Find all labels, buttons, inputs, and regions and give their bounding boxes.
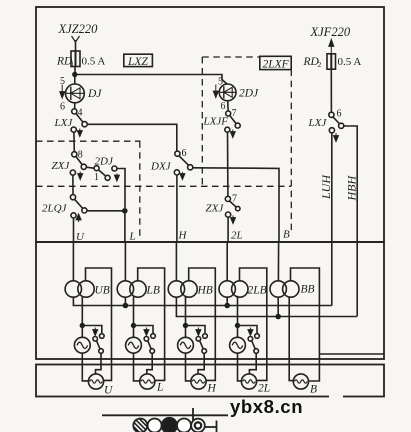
svg-text:LXJ: LXJ bbox=[308, 117, 328, 129]
junction LB primary on LUH bus bbox=[123, 303, 129, 309]
svg-text:LB: LB bbox=[146, 285, 160, 297]
svg-text:HB: HB bbox=[197, 285, 213, 297]
wire node L1 to contact DJ-L bbox=[134, 326, 154, 334]
relay 2DJ (lamp relay with diode) bbox=[213, 77, 259, 113]
svg-text:LUH: LUH bbox=[319, 174, 333, 200]
fuse RD2 0.5 A bbox=[303, 54, 362, 69]
wire node H1 to contact DJ-H bbox=[186, 326, 206, 334]
svg-text:L: L bbox=[156, 382, 163, 394]
svg-text:B: B bbox=[310, 384, 317, 396]
wire AC source to lamp U common bbox=[82, 353, 88, 381]
svg-text:2LQJ: 2LQJ bbox=[42, 203, 68, 215]
wire AC source to lamp H common bbox=[186, 353, 191, 381]
signal head lamp 1 (hatched) bbox=[133, 419, 147, 432]
svg-text:2DJ: 2DJ bbox=[239, 88, 259, 100]
svg-text:BB: BB bbox=[301, 284, 315, 296]
fuse RD1 0.5 A bbox=[56, 51, 105, 69]
wire node 2L1 to contact DJ-2L bbox=[238, 326, 258, 334]
wire node U1 to contact DJ-U bbox=[82, 326, 102, 334]
junction BB primary on HBH line bbox=[275, 314, 281, 320]
junction node H1 bbox=[183, 323, 188, 328]
wire 2LB primary return bbox=[226, 297, 228, 305]
svg-text:LXZ: LXZ bbox=[127, 56, 148, 68]
wire UB secondary to node U1 bbox=[81, 296, 83, 326]
wire net HBH bbox=[344, 126, 357, 317]
svg-text:XJF220: XJF220 bbox=[310, 25, 351, 39]
wire node H1 to AC source bbox=[185, 326, 187, 338]
wire RD2 to contact LXJ right bbox=[330, 69, 332, 112]
wire ZXJ front to contact 2DJ bbox=[86, 167, 94, 168]
contact DJ check L bbox=[151, 334, 156, 339]
wire node L1 to AC source bbox=[133, 326, 135, 338]
wire HB secondary loop to lamp H main bbox=[189, 268, 216, 380]
svg-text:1: 1 bbox=[71, 60, 75, 69]
contact DJ check 2L bbox=[255, 334, 260, 339]
label box LXZ bbox=[124, 54, 153, 68]
svg-text:LXJF: LXJF bbox=[203, 116, 229, 128]
wire BB primary return to HBH line bbox=[277, 297, 279, 316]
signal head end bar bbox=[205, 421, 217, 432]
contact ZXJ pin 8 bbox=[52, 150, 87, 180]
lamp check cell 2L bbox=[230, 296, 260, 381]
svg-text:U: U bbox=[76, 231, 85, 243]
wire LXJF back to ZXJ second contact bbox=[227, 132, 229, 196]
svg-text:L: L bbox=[129, 231, 136, 243]
wire net U down to bus bbox=[73, 218, 75, 242]
wire LXJ back to ZXJ bbox=[73, 132, 75, 152]
wire UB primary return to LUH bus bbox=[73, 297, 331, 305]
svg-text:DJ: DJ bbox=[87, 88, 102, 100]
svg-text:U: U bbox=[104, 385, 113, 397]
svg-text:H: H bbox=[178, 230, 188, 242]
wire node 2L1 to AC source bbox=[237, 326, 239, 338]
lamp B bbox=[293, 374, 317, 396]
lamp H bbox=[191, 374, 217, 395]
lamp check cell L bbox=[126, 296, 156, 381]
signal head lamp 2 (white) bbox=[148, 419, 162, 432]
lamp L bbox=[140, 374, 164, 394]
contact LXJF pin 7 bbox=[203, 108, 241, 138]
wire LXJ front contact to DXJ bbox=[87, 124, 177, 151]
wire node U1 to AC source bbox=[81, 326, 83, 338]
svg-text:6: 6 bbox=[221, 101, 226, 112]
dashed grouping boxes bbox=[36, 57, 291, 239]
wire LB primary return bbox=[124, 297, 126, 305]
svg-text:6: 6 bbox=[60, 102, 65, 113]
wire ZXJ back to 2LQJ bbox=[72, 175, 74, 195]
svg-text:2L: 2L bbox=[258, 383, 270, 395]
svg-text:6: 6 bbox=[337, 109, 342, 120]
wire net 2L down to bus bbox=[227, 217, 229, 242]
svg-text:0.5 A: 0.5 A bbox=[82, 56, 106, 68]
signal head lamp 5 (double ring) bbox=[191, 419, 205, 432]
wire contact to lamp 2L aux bbox=[249, 353, 256, 374]
wire B bus to BB primary bbox=[277, 242, 279, 281]
transformer UB bbox=[65, 281, 110, 297]
lamp 2L bbox=[241, 374, 270, 395]
svg-text:2L: 2L bbox=[231, 230, 243, 242]
wire junction to relay DJ bbox=[74, 75, 76, 85]
wire relay DJ pin6 to contact LXJ bbox=[74, 103, 76, 109]
signal head lamp 4 (white) bbox=[177, 419, 191, 432]
svg-text:B: B bbox=[283, 229, 290, 241]
wire BB secondary to lamp B bbox=[289, 297, 293, 380]
junction node L1 bbox=[131, 323, 136, 328]
lamp U bbox=[88, 374, 113, 397]
wire contact to lamp U aux bbox=[96, 353, 102, 374]
wire 2LB secondary loop to lamp 2L main bbox=[240, 268, 267, 380]
wire U bus to UB primary bbox=[72, 242, 74, 281]
wire H bus to HB primary bbox=[175, 242, 177, 281]
svg-text:UB: UB bbox=[95, 285, 110, 297]
contact DJ check U bbox=[100, 334, 105, 339]
signal head lamp 3 (black) bbox=[162, 418, 177, 432]
contact LXJ pin 6 (right) bbox=[308, 109, 344, 142]
junction node U1 bbox=[80, 323, 85, 328]
wire fuse RD1 to junction bbox=[74, 67, 76, 75]
svg-text:DXJ: DXJ bbox=[150, 161, 172, 173]
svg-text:2LB: 2LB bbox=[248, 285, 267, 297]
svg-text:2LXF: 2LXF bbox=[263, 58, 290, 70]
contact LXJ front contact pin 4 bbox=[54, 108, 88, 137]
wire UB secondary loop to lamp U main bbox=[86, 268, 112, 380]
wire BB secondary loop to lamp B main bbox=[291, 268, 320, 381]
contact 2DJ pin 1 bbox=[94, 156, 119, 184]
lamp check cell U bbox=[74, 296, 104, 381]
svg-text:XJZ220: XJZ220 bbox=[58, 22, 99, 36]
label box 2LXF bbox=[260, 56, 291, 70]
wire AC source to lamp L common bbox=[134, 353, 140, 381]
wire net LUH bbox=[331, 133, 333, 306]
watermark ybx8.cn bbox=[230, 396, 303, 418]
svg-text:HBH: HBH bbox=[345, 175, 359, 202]
svg-text:1: 1 bbox=[94, 172, 99, 183]
svg-text:5: 5 bbox=[60, 76, 65, 87]
AC source BD-L bbox=[126, 337, 142, 353]
svg-text:H: H bbox=[207, 383, 217, 395]
wire BB auxiliary tap to frame bbox=[319, 353, 384, 355]
signal mast symbol bbox=[102, 408, 228, 422]
wire DXJ front contact to net B bbox=[193, 168, 279, 242]
wire net H down to bus bbox=[176, 175, 178, 242]
node XJF220 return feed label bbox=[310, 25, 351, 53]
wire LB secondary to node L1 bbox=[133, 296, 135, 326]
transformer LB bbox=[117, 281, 160, 297]
wire L bus to LB primary bbox=[124, 242, 126, 281]
junction node 2L1 bbox=[235, 323, 240, 328]
AC source BD-H bbox=[178, 337, 194, 353]
AC source BD-2L bbox=[230, 337, 246, 353]
contact DJ check H bbox=[203, 334, 208, 339]
wire contact to lamp H aux bbox=[198, 353, 204, 374]
node XJZ220 power feed label bbox=[58, 22, 99, 51]
transformer HB bbox=[168, 281, 213, 297]
junction 2LB primary on LUH bus bbox=[224, 303, 230, 309]
relay room enclosure boxes bbox=[36, 7, 384, 397]
wire HB primary return to HBH line bbox=[176, 297, 357, 316]
svg-text:2: 2 bbox=[318, 60, 322, 69]
junction node A (after RD1) bbox=[72, 72, 77, 77]
svg-text:5: 5 bbox=[218, 77, 223, 88]
lamp check cell H bbox=[178, 296, 208, 381]
wire LXZ bus to 2DJ relay bbox=[75, 75, 228, 85]
transformer BB bbox=[270, 281, 315, 297]
wire 2LB secondary to node 2L1 bbox=[237, 296, 239, 326]
svg-text:ZXJ: ZXJ bbox=[52, 160, 71, 172]
svg-text:7: 7 bbox=[232, 108, 237, 119]
svg-text:ZXJ: ZXJ bbox=[206, 203, 225, 215]
svg-text:7: 7 bbox=[232, 194, 237, 205]
junction node L bbox=[122, 208, 128, 214]
contact ZXJ pin 7 (second) bbox=[206, 194, 241, 224]
svg-text:6: 6 bbox=[182, 148, 187, 159]
contact 2LQJ bbox=[42, 195, 87, 222]
wire relay 2DJ pin6 to contact LXJF bbox=[227, 101, 230, 111]
svg-text:LXJ: LXJ bbox=[54, 117, 74, 129]
transformer 2LB bbox=[219, 281, 267, 297]
AC source BD-U bbox=[74, 337, 90, 353]
wire 2DJ contact to node L bbox=[117, 169, 125, 209]
wire net L down to bus bbox=[124, 211, 126, 242]
wire 2LQJ front contact to node L junction bbox=[87, 210, 125, 212]
wire 2L bus to 2LB primary bbox=[226, 242, 228, 281]
svg-text:0.5 A: 0.5 A bbox=[338, 56, 362, 68]
contact DXJ pin 6 bbox=[150, 148, 193, 180]
wire AC source to lamp 2L common bbox=[238, 353, 242, 381]
wire LB secondary loop to lamp L main bbox=[138, 268, 165, 380]
wire contact to lamp L aux bbox=[147, 353, 152, 374]
relay DJ (lamp relay with diode) bbox=[60, 76, 103, 113]
wire HB secondary to node H1 bbox=[185, 296, 187, 326]
white patch on bottom border (scan artifact) bbox=[329, 393, 343, 400]
